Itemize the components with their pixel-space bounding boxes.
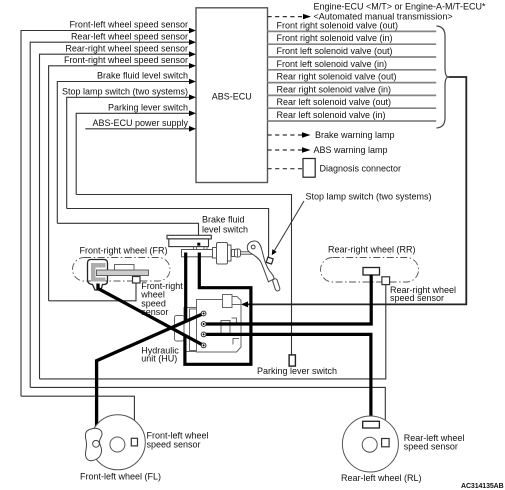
front-left sensor bracket (85, 428, 102, 460)
brace for solenoid valves (437, 26, 449, 128)
svg-text:Front-left wheel speed sensor: Front-left wheel speed sensor (69, 20, 188, 30)
svg-text:speed sensor: speed sensor (390, 293, 444, 303)
svg-text:Rear-right wheel (RR): Rear-right wheel (RR) (328, 245, 416, 255)
rear-left rotor (363, 421, 380, 428)
front-right caliper (115, 265, 135, 271)
svg-text:Parking lever switch: Parking lever switch (108, 102, 188, 112)
diagnosis connector (268, 159, 402, 178)
svg-text:Brake fluid: Brake fluid (202, 215, 245, 225)
svg-text:speed sensor: speed sensor (147, 439, 201, 449)
svg-text:Rear-right wheel speed sensor: Rear-right wheel speed sensor (65, 43, 188, 53)
wire W8 ABS-ECU power supply (85, 118, 196, 132)
dashed arrow to Engine-ECU (268, 1, 487, 21)
svg-text:Rear left solenoid valve (in): Rear left solenoid valve (in) (277, 110, 386, 120)
svg-text:Rear-left wheel (RL): Rear-left wheel (RL) (341, 473, 422, 483)
front left solenoid valve (in) line (268, 69, 437, 71)
front left solenoid valve (out) line (268, 56, 437, 58)
rear left solenoid valve (out) line (268, 107, 437, 109)
wire W1 front-left wheel speed sensor (21, 20, 196, 439)
brake fluid reservoir (167, 235, 213, 256)
front-right wheel speed sensor square (133, 277, 141, 284)
solenoid valve output lines (268, 31, 437, 121)
thick wire HU terminal1 to front-left wheel (97, 314, 204, 430)
front-right axle bar (97, 270, 149, 276)
wire W7 parking lever switch (76, 102, 291, 355)
rear right solenoid valve (in) line (268, 94, 437, 96)
svg-text:Rear left solenoid valve (out): Rear left solenoid valve (out) (277, 97, 392, 107)
parking lever switch (289, 355, 295, 366)
wire W5 brake fluid level switch (57, 71, 198, 244)
master cylinder (213, 243, 255, 265)
thick wire HU terminal4 to front-right bracket (98, 284, 204, 346)
wire W2 rear-left wheel speed sensor (30, 31, 385, 438)
svg-text:ABS warning lamp: ABS warning lamp (314, 145, 388, 155)
rear-right wheel speed sensor label (390, 285, 456, 303)
svg-text:Rear right solenoid valve (out: Rear right solenoid valve (out) (277, 72, 397, 82)
front right solenoid valve (out) line (268, 30, 437, 32)
svg-text:AC314135AB: AC314135AB (461, 483, 504, 490)
dashed arrow ABS warning lamp (268, 145, 388, 155)
svg-text:Rear right solenoid valve (in): Rear right solenoid valve (in) (277, 84, 392, 94)
front-left wheel speed sensor label (147, 431, 209, 450)
thick wire HU terminal2 to rear-right wheel (204, 275, 372, 325)
svg-text:Brake fluid level switch: Brake fluid level switch (97, 71, 188, 81)
rear-right wheel speed sensor square (382, 277, 390, 285)
thick wire brake fluid switch right terminal loop (185, 253, 251, 365)
svg-text:Parking lever switch: Parking lever switch (257, 366, 337, 376)
thick wire HU terminal3 to rear-left wheel (204, 334, 371, 421)
ABS-ECU box U1 (196, 8, 268, 183)
dashed arrow brake warning lamp (268, 130, 395, 140)
front-right hub bracket (88, 260, 108, 291)
HU terminal pins (201, 311, 206, 348)
svg-text:Front left solenoid valve (out: Front left solenoid valve (out) (277, 46, 393, 56)
front right solenoid valve (in) line (268, 43, 437, 45)
hydraulic unit HU (175, 295, 242, 353)
rear-right wheel capsule (321, 258, 419, 283)
front-right wheel capsule (73, 258, 171, 282)
wire W3 rear-right wheel speed sensor (40, 43, 386, 379)
front-left wheel speed sensor square (131, 438, 137, 446)
svg-text:Front right solenoid valve (in: Front right solenoid valve (in) (277, 33, 393, 43)
svg-text:Diagnosis connector: Diagnosis connector (320, 164, 402, 174)
rear-left wheel speed sensor square (382, 439, 390, 447)
stop lamp switch on pedal (266, 257, 273, 264)
wire from brace to hydraulic unit (241, 77, 466, 307)
svg-text:Front left solenoid valve (in): Front left solenoid valve (in) (277, 59, 388, 69)
rear-right rotor (363, 268, 380, 276)
svg-text:unit (HU): unit (HU) (141, 353, 177, 363)
brake pedal (247, 241, 280, 291)
svg-text:Front-right wheel (FR): Front-right wheel (FR) (80, 245, 168, 255)
wire W4 front-right wheel speed sensor (49, 55, 196, 301)
svg-text:level switch: level switch (202, 224, 248, 234)
front-left wheel (90, 415, 145, 470)
svg-text:Engine-ECU <M/T> or Engine-A-M: Engine-ECU <M/T> or Engine-A-M/T-ECU* (314, 1, 487, 11)
svg-text:Front right solenoid valve (ou: Front right solenoid valve (out) (277, 20, 399, 30)
rear right solenoid valve (out) line (268, 82, 437, 84)
rear left solenoid valve (in) line (268, 120, 437, 122)
stop lamp switch label and arrow (272, 192, 432, 256)
svg-text:Front-right wheel speed sensor: Front-right wheel speed sensor (64, 55, 188, 65)
thick wire brake fluid switch left terminal (184, 253, 187, 322)
svg-text:Brake warning lamp: Brake warning lamp (315, 130, 395, 140)
svg-text:ABS-ECU: ABS-ECU (212, 92, 252, 102)
brake fluid level switch plug (197, 243, 200, 246)
svg-text:ABS-ECU power supply: ABS-ECU power supply (92, 118, 188, 128)
rear-left wheel speed sensor label (404, 433, 465, 452)
svg-text:speed sensor: speed sensor (404, 442, 458, 452)
svg-text:Stop lamp switch (two systems): Stop lamp switch (two systems) (306, 192, 432, 202)
wire W6 stop lamp switch (62, 86, 269, 257)
svg-text:Front-left wheel (FL): Front-left wheel (FL) (80, 471, 161, 481)
front-right wheel speed sensor label (140, 281, 183, 317)
hydraulic unit label (141, 345, 179, 363)
svg-text:Rear-left wheel speed sensor: Rear-left wheel speed sensor (71, 31, 188, 41)
solenoid valve labels (277, 20, 399, 120)
brake fluid level switch label (202, 215, 248, 235)
svg-text:Stop lamp switch (two systems): Stop lamp switch (two systems) (62, 86, 188, 96)
rear-left wheel (342, 416, 398, 472)
